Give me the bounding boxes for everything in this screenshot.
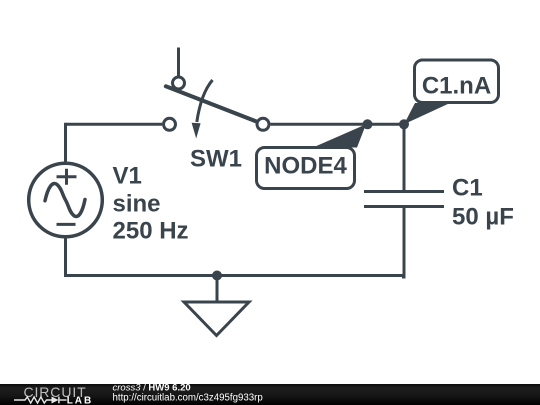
- wire left vertical: [64, 123, 67, 163]
- svg-text:V1: V1: [113, 163, 142, 190]
- junction dot ground node: [212, 271, 222, 281]
- switch SW1 arrow: [197, 80, 213, 122]
- callout C1.nA pointer: [404, 103, 450, 124]
- wire left horizontal: [66, 123, 163, 126]
- switch SW1 blade: [166, 86, 259, 122]
- svg-text:LAB: LAB: [67, 395, 94, 405]
- svg-text:NODE4: NODE4: [264, 153, 347, 180]
- wire capacitor top: [403, 124, 406, 190]
- V1 minus sign: [57, 223, 76, 226]
- wire ground stem: [216, 276, 219, 303]
- capacitor C1 plates: [364, 192, 444, 207]
- callout NODE4 pointer: [313, 124, 366, 147]
- svg-text:250 Hz: 250 Hz: [113, 218, 189, 245]
- callout NODE4 box: [257, 148, 355, 189]
- wire switch to capacitor: [271, 123, 405, 126]
- voltage source V1 body: [29, 163, 103, 237]
- wire bottom horizontal: [64, 274, 404, 277]
- wire capacitor bottom: [402, 208, 404, 277]
- ground symbol: [184, 302, 249, 336]
- svg-text:http://circuitlab.com/c3z495fg: http://circuitlab.com/c3z495fg933rp: [113, 392, 263, 403]
- wire switch top stem: [177, 48, 180, 77]
- svg-text:50 µF: 50 µF: [452, 204, 514, 231]
- CircuitLab logo resistor-diode glyph: [14, 397, 67, 404]
- wire V1 bottom: [64, 237, 67, 277]
- V1 sine symbol: [45, 184, 85, 217]
- svg-text:C1.nA: C1.nA: [422, 73, 491, 100]
- callout C1.nA box: [415, 60, 499, 103]
- svg-text:C1: C1: [452, 175, 483, 202]
- switch SW1 right terminal: [257, 118, 269, 130]
- V1 plus sign: [57, 169, 77, 185]
- svg-text:sine: sine: [113, 191, 161, 218]
- switch SW1 left terminal: [164, 118, 176, 130]
- node NODE4 junction dot: [363, 119, 373, 129]
- node C1.nA corner junction dot: [399, 119, 409, 129]
- svg-text:SW1: SW1: [190, 146, 242, 173]
- switch SW1 pivot terminal: [173, 77, 185, 89]
